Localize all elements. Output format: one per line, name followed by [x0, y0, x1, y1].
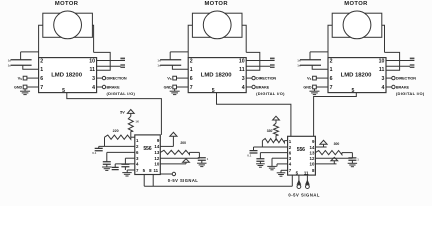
terminal DIRECTION 2 circle [252, 76, 255, 79]
motor M2 body [192, 13, 242, 37]
ground T2 pin3 [267, 166, 276, 169]
svg-text:200: 200 [180, 141, 186, 145]
wire C2a to pin 1 [172, 65, 188, 69]
wire T2 pin11 drop [306, 175, 308, 185]
svg-text:300: 300 [334, 142, 340, 146]
svg-text:LMD 18200: LMD 18200 [341, 73, 373, 79]
svg-text:BRAKE: BRAKE [256, 86, 270, 90]
svg-text:MOTOR: MOTOR [55, 1, 79, 7]
svg-text:11: 11 [153, 168, 158, 173]
capacitor C13 stem2 [351, 160, 353, 163]
ground C10 [256, 164, 265, 167]
resistor R1a vertical [128, 116, 133, 131]
svg-text:BRAKE: BRAKE [396, 86, 410, 90]
wire U2 pin 4 to BRAKE [246, 86, 252, 88]
svg-text:220: 220 [113, 129, 119, 133]
wire U3 pin 4 to BRAKE [386, 86, 392, 88]
wire U2 pin 3 to DIRECTION [246, 77, 252, 79]
wire T2 pin12 right [315, 157, 352, 159]
wire 5V to pin14 [172, 136, 174, 146]
ground T2 pin7 [277, 173, 286, 176]
motor M1 rotor circle [54, 11, 82, 39]
wire T2 pin10 right [315, 163, 336, 165]
ground symbol block 2 [170, 91, 180, 94]
ground symbol block 3 [309, 91, 319, 94]
capacitor C1a plate B [11, 64, 32, 66]
wire U3 pin 3 to DIRECTION [386, 77, 392, 79]
svg-text:5V: 5V [120, 111, 125, 115]
terminal Vs2 square [173, 76, 177, 80]
wire R1b to T1 pin1 [131, 136, 135, 138]
power +5V symbol T2 [273, 116, 280, 120]
capacitor C10 plates [256, 159, 264, 161]
wire 5V to T2 pin14 [323, 144, 325, 147]
ground T1 pin7 [122, 173, 131, 176]
wire R1b left drop [104, 137, 106, 146]
terminal T1 signal circle [172, 172, 175, 175]
capacitor C2a plate B [160, 64, 181, 66]
wire U1 pin 4 to BRAKE [97, 86, 103, 88]
terminal DIRECTION 1 circle [102, 76, 105, 79]
terminal GND3 square [313, 85, 317, 89]
svg-text:(DIGITAL I/O): (DIGITAL I/O) [256, 91, 285, 96]
wire Vs3 to pin 6 [316, 77, 328, 79]
svg-text:1n: 1n [8, 64, 12, 68]
svg-text:10: 10 [310, 162, 315, 167]
svg-text:6: 6 [190, 76, 193, 82]
svg-text:556: 556 [297, 147, 305, 153]
svg-text:DIRECTION: DIRECTION [396, 77, 416, 81]
svg-text:7: 7 [190, 85, 193, 91]
capacitor C3b plates [410, 58, 415, 60]
wire U2 pin5 PWM to timer2 pin1 [217, 93, 291, 137]
wire U3 boot branch drop [309, 52, 311, 60]
capacitor C8 plates [198, 158, 206, 160]
wire U1 out2 branch [94, 52, 111, 70]
svg-text:6: 6 [330, 76, 333, 82]
svg-text:1: 1 [40, 67, 43, 73]
capacitor C2c plates [270, 65, 275, 67]
svg-text:DIRECTION: DIRECTION [256, 77, 276, 81]
wire T2 pin3 left [272, 157, 288, 159]
svg-text:4: 4 [242, 85, 245, 91]
svg-text:3: 3 [382, 76, 385, 82]
wire motor 1 left terminal to OUT1 [39, 25, 43, 57]
svg-text:7: 7 [330, 85, 333, 91]
svg-text:11: 11 [304, 170, 309, 175]
svg-text:GND: GND [303, 86, 312, 90]
wire T1 pin5 drop [143, 175, 145, 187]
wire T1 pin8 drop [152, 175, 154, 187]
svg-text:10: 10 [89, 58, 95, 64]
capacitor C5 plates [103, 162, 111, 164]
wire T1 pin6 left [107, 151, 135, 153]
wire T1 pin4 drop [114, 164, 116, 168]
H-bridge U3 LMD18200 body [328, 58, 386, 93]
svg-text:5: 5 [62, 88, 65, 94]
capacitor C7 plates [112, 167, 119, 169]
svg-text:4: 4 [92, 85, 95, 91]
wire T1 pin12 right [160, 157, 199, 159]
svg-text:1n: 1n [8, 58, 12, 62]
capacitor C8 stem [201, 157, 203, 159]
svg-text:GND: GND [14, 86, 23, 90]
wire Vs1 to pin 6 [27, 77, 39, 79]
capacitor C1c plates [120, 65, 125, 67]
wire U1 pin 11 to C1c [97, 65, 121, 67]
ground T2 pin7 stem [280, 170, 282, 173]
ground T1 pin7 stem [126, 170, 128, 173]
capacitor C13 stem [351, 156, 353, 159]
ground symbol block 1 [20, 91, 30, 94]
wire GND1 to pin 7 [27, 86, 39, 88]
capacitor C3a plate B [300, 64, 321, 66]
power +5V symbol T1 pin10 [183, 159, 190, 163]
wire C1a to pin 1 [23, 65, 39, 69]
terminal Vs3 square [313, 76, 317, 80]
wire T1 pin3 drop [124, 158, 126, 164]
wire U2 boot branch top [170, 51, 188, 53]
wire T1 pin2 left [99, 145, 135, 147]
wire U3 pin 10 to C3b [386, 60, 410, 62]
arrow T2 pin5 [297, 181, 300, 185]
ground C13 [348, 163, 357, 166]
wire T2 pin2 left [254, 146, 288, 148]
svg-text:1n: 1n [157, 64, 161, 68]
wire R3a to R3b [275, 135, 277, 140]
terminal BRAKE 3 circle [392, 85, 395, 88]
timer IC T2 556 body [288, 136, 316, 175]
wire motor 1 right terminal to OUT2 [92, 25, 93, 52]
svg-text:13: 13 [310, 150, 315, 155]
svg-text:5: 5 [212, 88, 215, 94]
svg-text:556: 556 [143, 146, 151, 152]
svg-text:1n: 1n [157, 58, 161, 62]
svg-text:11: 11 [239, 67, 245, 73]
power +5V symbol T2 pin14 [320, 140, 327, 144]
svg-text:LMD 18200: LMD 18200 [51, 73, 83, 79]
wire T1 pin4 left [115, 163, 135, 165]
wire R4 to junction [342, 152, 353, 154]
power +5V symbol T2 pin10 [331, 157, 338, 161]
svg-text:4: 4 [382, 85, 385, 91]
svg-text:330: 330 [267, 129, 273, 133]
svg-text:GND: GND [164, 86, 173, 90]
svg-text:3: 3 [92, 76, 95, 82]
capacitor C6 stem [124, 167, 126, 170]
wire R2 to junction [190, 151, 200, 153]
wire T2 pin3 drop [271, 158, 273, 166]
capacitor C5 stem [106, 164, 108, 167]
resistor R4 [315, 151, 342, 155]
motor M3 body [332, 13, 382, 37]
resistor R1b horizontal [105, 135, 131, 139]
capacitor C8 stem2 [201, 160, 203, 163]
resistor R3b horizontal [262, 139, 284, 143]
wire U3 pin 11 to C3c [386, 65, 410, 67]
svg-text:2: 2 [330, 58, 333, 64]
power +5V symbol T1 pin14 [170, 132, 177, 136]
wire R3b left drop [261, 141, 263, 147]
terminal GND1 square [23, 85, 27, 89]
wire T1 pin6 drop [106, 152, 108, 161]
H-bridge U2 LMD18200 body [188, 58, 246, 93]
ground symbol block 1 stem [24, 89, 26, 91]
capacitor C10 stem [259, 161, 261, 164]
svg-text:(DIGITAL I/O): (DIGITAL I/O) [396, 91, 425, 96]
svg-text:DIRECTION: DIRECTION [107, 77, 127, 81]
svg-text:11: 11 [379, 67, 385, 73]
resistor R3a vertical [274, 123, 279, 135]
svg-text:6: 6 [40, 76, 43, 82]
wire motor 3 left terminal to OUT1 [328, 25, 332, 57]
wire C3a to pin 1 [312, 65, 328, 69]
svg-text:LMD 18200: LMD 18200 [201, 73, 233, 79]
wire link rise to T2 [291, 175, 293, 186]
wire T2 pin4 drop [276, 164, 278, 167]
motor M2 rotor circle [203, 11, 231, 39]
ground C5 [102, 167, 111, 170]
svg-text:0-5V SIGNAL: 0-5V SIGNAL [288, 193, 320, 198]
capacitor C1a plate A [11, 59, 32, 61]
wire motor 3 right terminal to OUT2 [382, 25, 385, 52]
svg-text:13: 13 [154, 150, 159, 155]
terminal T2 signal circle B [306, 185, 310, 189]
wire T2 pin7 left [281, 169, 288, 171]
wire T2 pin4 left [277, 163, 288, 165]
svg-text:14: 14 [154, 144, 159, 149]
ground C8 [197, 163, 206, 166]
svg-text:1n: 1n [297, 64, 301, 68]
wire T1 pin14 right [160, 145, 173, 147]
svg-text:7: 7 [40, 85, 43, 91]
wire junction drop [198, 152, 200, 158]
svg-text:11: 11 [90, 67, 96, 73]
wire U3 pin5 PWM to timer2 pin9 [314, 93, 357, 137]
svg-text:MOTOR: MOTOR [344, 1, 368, 7]
wire U1 pin5 PWM to timer1 pin9 [67, 93, 162, 135]
svg-text:10: 10 [379, 58, 385, 64]
wire U2 pin 11 to C2c [246, 65, 270, 67]
capacitor C2b plates [270, 58, 275, 60]
svg-text:2: 2 [40, 58, 43, 64]
terminal DIRECTION 3 circle [392, 76, 395, 79]
power +5V symbol T1 [127, 110, 134, 114]
svg-text:10: 10 [239, 58, 245, 64]
wire 5V to T2 pin10 [333, 161, 335, 164]
terminal T2 signal circle A [297, 185, 301, 189]
wire T1 pin3 left [125, 157, 134, 159]
wire U1 pin 3 to DIRECTION [97, 77, 103, 79]
capacitor C4 plates [95, 148, 103, 150]
motor M3 rotor circle [343, 11, 371, 39]
svg-text:3: 3 [242, 76, 245, 82]
ground symbol block 3 stem [313, 89, 315, 91]
wire T2 junction drop [351, 153, 353, 159]
capacitor C13 plates [348, 158, 356, 160]
capacitor C3c plates [410, 65, 415, 67]
wire T2 pin6 drop [259, 153, 261, 159]
timer IC T1 556 body [135, 135, 161, 175]
svg-text:14: 14 [310, 145, 315, 150]
wire U1 pin 10 to C1b [97, 60, 121, 62]
wire motor 2 left terminal to OUT1 [188, 25, 192, 57]
arrow T2 pin11 [306, 181, 309, 185]
svg-text:1: 1 [190, 67, 193, 73]
capacitor C2a plate A [160, 59, 181, 61]
wire 5V T2 stem [275, 120, 277, 123]
wire 5V T1 stem [130, 113, 132, 116]
capacitor C3a plate A [300, 59, 321, 61]
wire T1 pin7 left [127, 169, 135, 171]
ground symbol block 2 stem [174, 89, 176, 91]
wire R3b to T2 pin1 [284, 140, 287, 142]
wire 5V to pin10 [185, 162, 187, 164]
svg-text:1n: 1n [297, 58, 301, 62]
capacitor C9 plates [250, 151, 258, 153]
svg-text:10: 10 [154, 162, 159, 167]
wire T1 pin10 right [160, 163, 186, 165]
wire motor 2 right terminal to OUT2 [242, 25, 246, 52]
svg-text:0.1: 0.1 [247, 153, 251, 157]
capacitor C1b plates [120, 58, 125, 60]
wire U1 boot branch drop [20, 52, 22, 60]
wire Vs2 to pin 6 [177, 77, 189, 79]
svg-text:5: 5 [352, 88, 355, 94]
wire GND3 to pin 7 [316, 86, 328, 88]
wire U3 out2 branch [385, 52, 400, 70]
H-bridge U1 LMD18200 body [39, 58, 97, 93]
resistor R2 [160, 150, 189, 154]
svg-text:0.1: 0.1 [92, 151, 96, 155]
svg-text:MOTOR: MOTOR [204, 1, 228, 7]
wire T1 pin11 out [160, 173, 172, 175]
svg-text:BRAKE: BRAKE [107, 86, 121, 90]
wire T1 to T2 link [144, 185, 292, 187]
capacitor C4 stem [98, 146, 100, 148]
svg-text:12: 12 [154, 156, 159, 161]
terminal GND2 square [173, 85, 177, 89]
svg-text:1: 1 [330, 67, 333, 73]
wire T2 pin6 left [260, 152, 287, 154]
wire U2 boot branch drop [169, 52, 171, 60]
terminal BRAKE 2 circle [252, 85, 255, 88]
terminal BRAKE 1 circle [102, 85, 105, 88]
svg-text:2: 2 [190, 58, 193, 64]
wire R1a to R1b [130, 131, 132, 137]
svg-text:(DIGITAL I/O): (DIGITAL I/O) [107, 91, 136, 96]
wire U2 pin 10 to C2b [246, 60, 270, 62]
wire T2 pin5 drop [298, 175, 300, 185]
svg-text:0-5V SIGNAL: 0-5V SIGNAL [168, 178, 199, 183]
terminal Vs1 square [23, 76, 27, 80]
capacitor C9 stem [253, 147, 255, 151]
svg-text:12: 12 [310, 156, 315, 161]
capacitor C6 plates [121, 164, 129, 166]
wire GND2 to pin 7 [177, 86, 189, 88]
wire U1 boot branch top [21, 51, 39, 53]
wire U2 out2 branch [246, 52, 260, 70]
wire T2 pin14 right [315, 146, 326, 148]
motor M1 body [43, 13, 93, 37]
wire U3 boot branch top [310, 51, 328, 53]
